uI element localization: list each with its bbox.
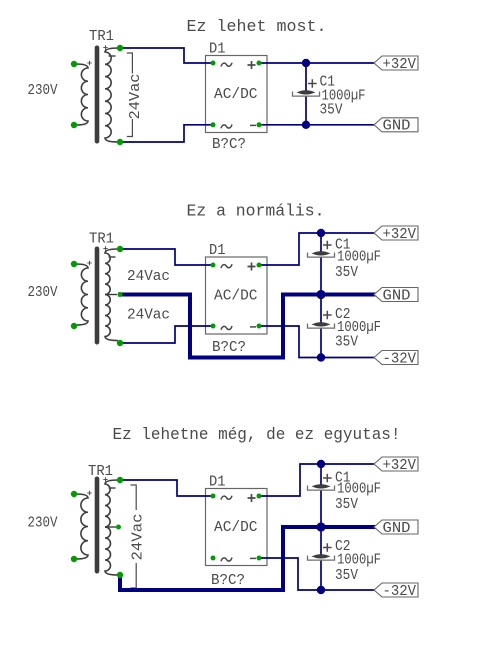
junction node: C1 bottom / GND rail (section 1) <box>302 121 310 129</box>
capacitor C1 1000uF 35V (section 2) <box>320 233 322 252</box>
svg-text:35V: 35V <box>320 102 343 119</box>
wire: D1 + output up to +32V rail (section 3) <box>259 464 374 496</box>
junction node: C1 top / +32V rail (section 1) <box>302 59 310 67</box>
junction node: GND rail (section 2) <box>316 290 325 299</box>
svg-text:-32V: -32V <box>383 351 417 367</box>
rectifier U: D1 B?C? (section 3) <box>206 489 268 566</box>
rectifier U: D1 B?C? (section 2) <box>206 257 268 334</box>
pin dots: D1 pins (section 1) <box>211 61 216 66</box>
svg-text:230V: 230V <box>28 284 58 301</box>
svg-text:GND: GND <box>383 521 411 537</box>
net flag -32V (section 3) <box>374 583 418 597</box>
svg-text:AC/DC: AC/DC <box>214 86 258 103</box>
net flag +32V (section 1) <box>374 56 418 70</box>
transformer TR1 (section 1) <box>76 28 118 144</box>
wire: TR1 sec bottom to D1 ~ pin (section 2) <box>120 326 213 343</box>
net flag +32V (section 2) <box>374 226 418 240</box>
svg-text:24Vac: 24Vac <box>127 307 170 324</box>
junction node: +32V rail (section 3) <box>317 460 325 468</box>
transformer TR1 (section 2, center-tapped) <box>76 231 118 345</box>
svg-text:AC/DC: AC/DC <box>214 519 258 536</box>
wire: D1 - output to GND rail (section 1) <box>259 124 374 126</box>
svg-text:D1: D1 <box>209 41 226 58</box>
junction node: GND rail (section 3) <box>316 522 325 531</box>
net flag +32V (section 3) <box>374 457 418 471</box>
pin dots: TR1 terminals incl. unused center tap (section 3) <box>71 491 77 497</box>
svg-text:1000µF: 1000µF <box>337 249 381 266</box>
svg-text:+32V: +32V <box>383 458 417 474</box>
capacitor C1 1000uF 35V (section 3) <box>320 464 322 485</box>
capacitor C1 1000uF 35V (section 1) <box>305 63 307 91</box>
wire: D1 - output down to -32V rail (section 2) <box>259 326 374 358</box>
net flag GND (section 1) <box>374 118 418 132</box>
net flag GND (section 3) <box>374 520 418 534</box>
wire: D1 - output down to -32V rail (section 3) <box>259 558 374 590</box>
svg-text:AC/DC: AC/DC <box>214 288 258 305</box>
transformer TR1 (section 3, full winding used) <box>76 463 118 575</box>
thick wire: TR1 sec bottom around to GND flag (section 3) <box>120 527 374 590</box>
svg-text:D1: D1 <box>209 474 226 491</box>
svg-text:35V: 35V <box>335 334 358 351</box>
svg-text:24Vac: 24Vac <box>127 74 144 120</box>
svg-text:230V: 230V <box>28 82 58 99</box>
svg-text:-32V: -32V <box>383 584 417 600</box>
svg-text:B?C?: B?C? <box>211 572 245 589</box>
junction node: -32V rail (section 3) <box>317 586 325 594</box>
pin dots: TR1 terminals incl. center tap (section 2) <box>71 261 77 267</box>
wire: TR1 sec bottom to D1 ~ pin (section 1) <box>120 125 213 142</box>
rectifier U: D1 B?C? (section 1) <box>206 56 268 133</box>
svg-text:GND: GND <box>383 119 411 135</box>
svg-text:B?C?: B?C? <box>212 136 246 153</box>
wire: TR1 sec top to D1 ~ pin (section 2) <box>120 249 213 265</box>
capacitor C2 1000uF 35V (section 2) <box>320 295 322 323</box>
svg-text:230V: 230V <box>28 515 58 532</box>
thick wire: center tap to GND flag (section 2) <box>120 295 374 358</box>
svg-text:B?C?: B?C? <box>212 339 246 356</box>
wire: D1 + output to +32V rail (section 1) <box>259 62 374 64</box>
svg-text:Ez lehetne még, de ez egyutas!: Ez lehetne még, de ez egyutas! <box>113 426 401 445</box>
pin dots: D1 pins (section 3) <box>211 494 216 499</box>
svg-text:TR1: TR1 <box>89 231 114 248</box>
junction node: -32V rail (section 2) <box>317 353 325 361</box>
svg-text:24Vac: 24Vac <box>130 514 147 561</box>
svg-text:Ez a normális.: Ez a normális. <box>187 203 325 222</box>
net flag GND (section 2) <box>374 288 418 302</box>
capacitor C2 1000uF 35V (section 3) <box>320 527 322 555</box>
svg-text:+32V: +32V <box>383 227 417 243</box>
svg-text:1000µF: 1000µF <box>337 481 381 498</box>
wire: TR1 sec top to D1 ~ pin (section 3) <box>120 480 213 496</box>
svg-text:+32V: +32V <box>383 57 417 73</box>
svg-text:35V: 35V <box>335 567 358 584</box>
svg-text:24Vac: 24Vac <box>127 268 170 285</box>
svg-text:Ez lehet most.: Ez lehet most. <box>187 18 327 37</box>
svg-text:GND: GND <box>383 288 411 304</box>
pin dots: TR1 terminals (section 1) <box>71 61 77 67</box>
wire: D1 + output up to +32V rail (section 2) <box>259 233 374 265</box>
label 24Vac with measure bracket (section 3) <box>130 485 147 588</box>
wire: TR1 sec top to D1 ~ pin (section 1) <box>120 48 213 63</box>
junction node: +32V rail (section 2) <box>317 229 325 237</box>
svg-text:TR1: TR1 <box>88 463 113 480</box>
net flag -32V (section 2) <box>374 351 418 365</box>
pin dots: D1 pins (section 2) <box>211 263 216 268</box>
label 24Vac with measure bracket (section 1 secondary) <box>127 53 144 137</box>
svg-text:TR1: TR1 <box>89 28 114 45</box>
svg-text:D1: D1 <box>209 242 226 259</box>
svg-text:1000µF: 1000µF <box>337 552 381 569</box>
svg-text:35V: 35V <box>335 264 358 281</box>
svg-text:35V: 35V <box>335 496 358 513</box>
